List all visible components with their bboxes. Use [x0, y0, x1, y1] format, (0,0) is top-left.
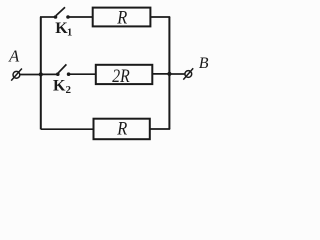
- wire top-left corner to switch K1: [40, 16, 55, 18]
- wire switch K2 to resistor R2: [69, 73, 96, 75]
- wire switch K1 to resistor R1: [68, 16, 93, 18]
- junction dot at left bus: [39, 72, 43, 76]
- svg-text:2R: 2R: [112, 66, 130, 87]
- resistor R2 (middle): [96, 65, 153, 84]
- resistor R3 (bottom): [94, 119, 150, 140]
- right bus wire: [168, 17, 170, 129]
- svg-text:A: A: [8, 47, 20, 66]
- junction dot at right bus: [167, 72, 171, 76]
- wire A to left bus: [20, 74, 41, 76]
- terminal A: [11, 69, 22, 81]
- wire left bus to switch K2: [41, 73, 58, 75]
- switch K1: [54, 7, 70, 19]
- wire resistor R1 to top-right corner: [150, 16, 170, 18]
- svg-text:R: R: [116, 118, 127, 139]
- left bus wire: [40, 17, 42, 129]
- terminal B: [183, 68, 193, 79]
- svg-text:B: B: [199, 55, 209, 72]
- svg-text:R: R: [116, 8, 127, 29]
- wire bottom-left corner to resistor R3: [41, 128, 94, 130]
- wire right bus to terminal B: [169, 73, 185, 75]
- wire resistor R2 to right bus: [152, 73, 169, 75]
- switch K2: [56, 64, 70, 76]
- resistor R1 (top): [93, 8, 151, 27]
- wire resistor R3 to bottom-right corner: [150, 128, 170, 130]
